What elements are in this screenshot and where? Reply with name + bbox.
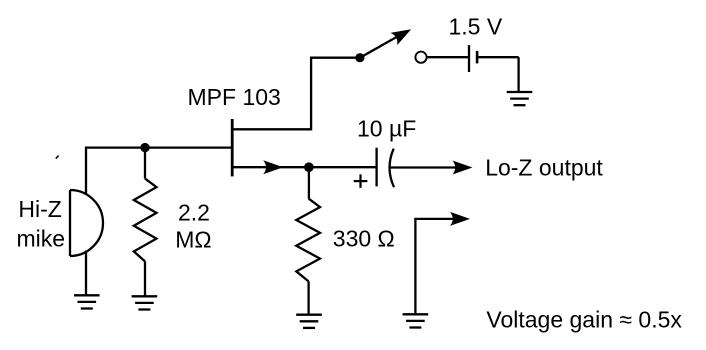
svg-text:MΩ: MΩ	[175, 227, 211, 253]
svg-text:10 µF: 10 µF	[357, 116, 416, 142]
svg-text:MPF 103: MPF 103	[188, 84, 281, 110]
svg-text:1.5 V: 1.5 V	[449, 14, 503, 40]
svg-text:Hi-Z: Hi-Z	[18, 196, 61, 222]
svg-text:330 Ω: 330 Ω	[333, 226, 395, 252]
svg-text:2.2: 2.2	[178, 200, 210, 226]
svg-text:Lo-Z output: Lo-Z output	[485, 155, 603, 181]
svg-text:Voltage gain ≈ 0.5x: Voltage gain ≈ 0.5x	[486, 306, 682, 332]
svg-text:mike: mike	[17, 225, 66, 251]
